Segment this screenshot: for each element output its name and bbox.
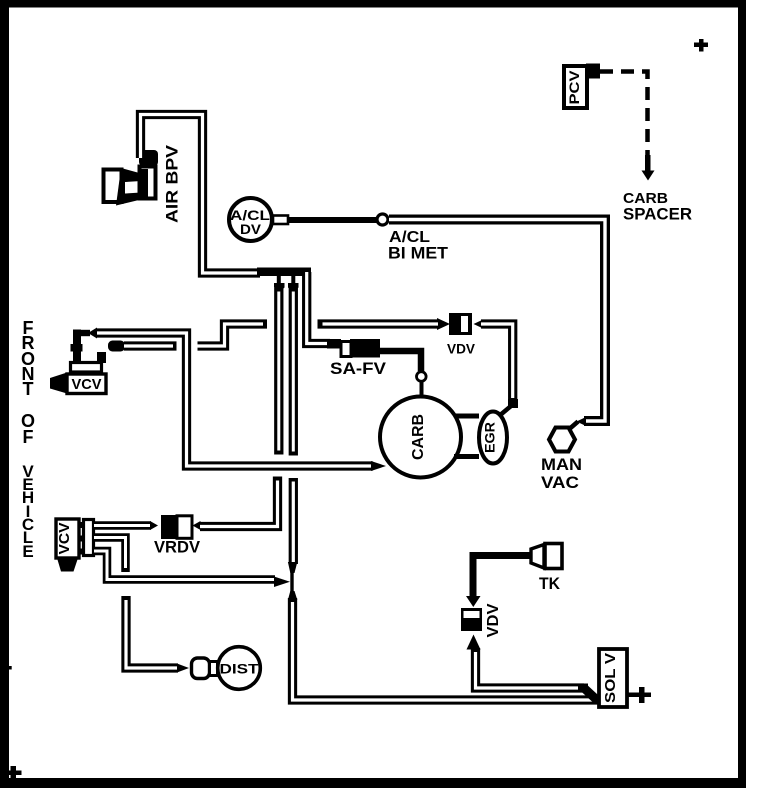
VCV lower cone (57, 558, 78, 572)
svg-text:MAN: MAN (541, 455, 582, 474)
link to MAN VAC hexagon (567, 422, 578, 432)
svg-text:EGR: EGR (482, 422, 498, 453)
hose VCV port1 to CARB (long loop) (97, 333, 373, 466)
border frame bottom bar (0, 778, 746, 788)
elbow node bump (71, 344, 83, 352)
hose AIR BPV to junction (141, 115, 261, 274)
dashed vacuum line PCV to carb spacer (600, 72, 648, 159)
VCV flange (71, 363, 102, 373)
hose VRDV loop (up, capped) (200, 477, 278, 527)
VCV lower flange (84, 520, 94, 556)
SA-FV inlet nipple (327, 339, 341, 349)
hose VCV-B port3 to junction (94, 551, 275, 580)
flange nubs (78, 522, 84, 555)
text FRONT OF VEHICLE (21, 318, 35, 561)
EGR connection neck top (456, 414, 479, 419)
MAN VAC hexagon port (549, 428, 575, 452)
svg-text:DV: DV (240, 221, 262, 237)
arrow into VCV elbow (88, 328, 97, 339)
AIR BPV top nib (139, 150, 158, 166)
PCV connector block (586, 64, 600, 79)
hose VCV-B port1 to VRDV (94, 521, 151, 530)
hose VCV-B port2 stub (capped) (94, 538, 126, 573)
pointed tip into DIST (177, 664, 189, 673)
DIST circle (218, 647, 261, 690)
registration cross top-right (694, 39, 708, 52)
svg-text:PCV: PCV (566, 70, 582, 105)
VRDV outlet arrow (193, 521, 201, 530)
AIR BPV valve left barrel (104, 170, 122, 203)
VRDV valve (161, 515, 177, 539)
SOL V connector blob (578, 684, 588, 693)
wire A/CL DV to bimet sensor (288, 217, 377, 223)
svg-text:VDV: VDV (485, 603, 502, 637)
EGR connection neck bottom (454, 454, 479, 459)
svg-text:VAC: VAC (541, 473, 579, 492)
arrow into junction (274, 577, 290, 588)
PCV valve box (564, 66, 587, 108)
tick mark on left bar (9, 666, 12, 670)
hose VCV port2 segment 2 (jog up) (198, 324, 268, 346)
AIR BPV right body (140, 167, 156, 199)
svg-text:DIST: DIST (220, 661, 260, 677)
TK sensor box (545, 544, 562, 569)
A/CL DV circle (229, 198, 272, 241)
DIST inlet barrel (192, 658, 210, 679)
svg-text:F: F (23, 427, 34, 447)
svg-text:BI MET: BI MET (388, 244, 449, 263)
border frame left bar (0, 0, 9, 788)
pointed tip into CARB (371, 461, 386, 471)
hose B vertical (capped bottom) (289, 288, 298, 456)
carb port ring (417, 372, 427, 382)
VDV valve (top) (449, 313, 472, 335)
junction stem (290, 571, 293, 593)
VDV valve (bottom) (461, 608, 482, 631)
svg-text:SA-FV: SA-FV (330, 359, 387, 378)
VDV inlet arrow (437, 318, 450, 330)
VDV right arrow (474, 321, 482, 328)
svg-text:AIR BPV: AIR BPV (163, 144, 182, 223)
carb port line (420, 381, 424, 397)
VCV valve cone (upper) (50, 373, 67, 394)
junction manifold bar (257, 268, 311, 277)
hose VCV port2 cap (108, 341, 125, 352)
svg-text:VCV: VCV (56, 523, 73, 555)
VCV valve box (lower, rotated) (56, 519, 79, 558)
hose C to SA-FV (307, 272, 330, 344)
svg-text:VCV: VCV (72, 376, 102, 393)
SOL V solenoid box (599, 649, 627, 707)
wire TK to VDV (473, 556, 530, 597)
svg-text:VRDV: VRDV (154, 538, 201, 557)
SOL V ground cross (627, 687, 651, 703)
svg-text:TK: TK (539, 574, 561, 593)
diagonal link to EGR (499, 406, 511, 416)
svg-text:CARB: CARB (410, 414, 427, 460)
VCV valve box (upper) (67, 374, 106, 394)
EGR hose end block (508, 399, 518, 408)
VCV port2 riser nub (97, 352, 106, 363)
A/CL DV outlet stub (273, 216, 288, 225)
hose A vertical (capped bottom) (274, 288, 283, 455)
arrow into VRDV (150, 521, 158, 530)
svg-text:SPACER: SPACER (623, 205, 692, 224)
border frame right bar (738, 0, 746, 788)
border frame top bar (0, 0, 746, 8)
svg-text:E: E (22, 542, 33, 561)
hose junction to SOL V (293, 598, 600, 700)
hose VDV to EGR (481, 324, 513, 400)
svg-text:SOL V: SOL V (602, 653, 619, 703)
arrow down to CARB SPACER (642, 155, 655, 181)
AIR BPV funnel (116, 168, 143, 206)
wire SA-FV to carb port (380, 351, 421, 371)
hose bimet to MAN VAC (389, 220, 605, 422)
arrow into MAN VAC (577, 417, 587, 426)
TK funnel (531, 545, 544, 569)
SA-FV valve (341, 342, 351, 357)
CARB circle (380, 397, 461, 478)
junction taper bottom (288, 591, 297, 600)
arrow down into VDV (466, 596, 481, 607)
svg-text:VDV: VDV (447, 341, 476, 357)
hose VCV port2 to VDV segment 1 (124, 341, 177, 350)
arrow up into VDV bottom (467, 635, 481, 650)
bimet connector ring (377, 214, 388, 225)
hose VCV port2 segment 3 (to VDV) (318, 319, 439, 328)
EGR valve ellipse (479, 412, 507, 464)
junction taper top (288, 562, 297, 573)
hose to DIST (below crossing) (126, 596, 178, 668)
hose A nipple (274, 274, 285, 293)
hose B2 vertical junction feed (capped top) (289, 478, 298, 564)
svg-text:T: T (23, 379, 34, 399)
hose VDV to SOL V (476, 648, 585, 688)
VCV elbow riser (73, 330, 81, 362)
hose B nipple (288, 274, 299, 293)
registration cross bottom-left (8, 766, 22, 779)
